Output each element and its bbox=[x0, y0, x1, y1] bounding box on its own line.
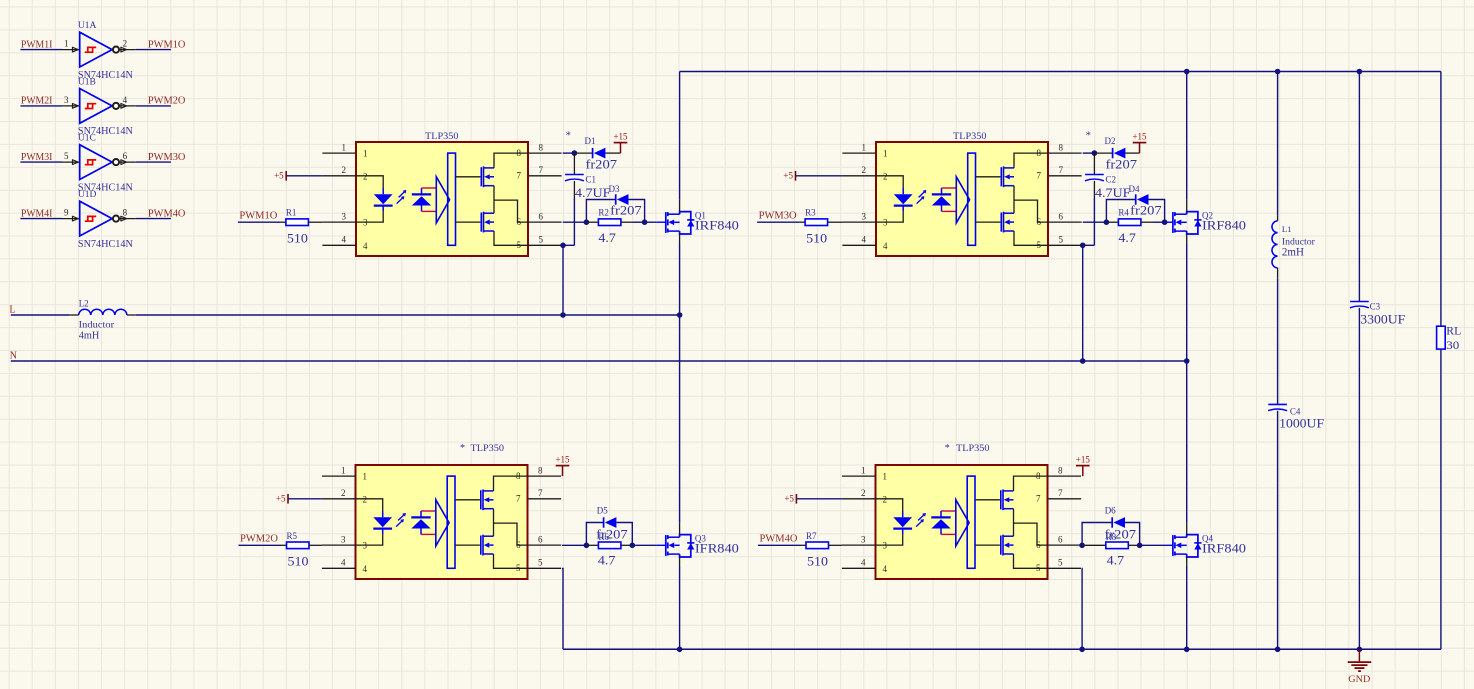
svg-text:*: * bbox=[460, 443, 465, 454]
inductor L1 2mH bbox=[1272, 216, 1278, 279]
wire PWM3O output bbox=[136, 161, 171, 163]
svg-text:U1D: U1D bbox=[78, 190, 97, 200]
wire R5 to pin 3 bbox=[309, 544, 322, 546]
svg-text:1: 1 bbox=[341, 465, 346, 475]
svg-text:8: 8 bbox=[123, 208, 128, 218]
svg-text:C2: C2 bbox=[1106, 174, 1117, 184]
optocoupler TLP350 #1 body bbox=[322, 142, 561, 256]
svg-text:1: 1 bbox=[342, 142, 347, 152]
wire pin5 to bottom bus (sec4) bbox=[1081, 568, 1083, 649]
svg-text:PWM3O: PWM3O bbox=[148, 152, 186, 163]
wire Q2 source / midpoint to N rail bbox=[1186, 244, 1188, 362]
svg-text:RL: RL bbox=[1446, 324, 1461, 338]
svg-text:D5: D5 bbox=[597, 506, 608, 516]
wire C3 to bottom bus bbox=[1358, 308, 1360, 649]
svg-text:1: 1 bbox=[862, 142, 867, 152]
svg-text:PWM2O: PWM2O bbox=[240, 534, 278, 545]
wire pin6 (sec4) bbox=[1081, 544, 1082, 546]
svg-text:L1: L1 bbox=[1282, 224, 1291, 234]
wire PWM2O output bbox=[136, 105, 171, 107]
svg-text:+15: +15 bbox=[1132, 132, 1147, 142]
svg-text:L: L bbox=[9, 304, 15, 315]
resistor R4 4.7 bbox=[1106, 221, 1118, 223]
svg-text:3: 3 bbox=[341, 534, 346, 544]
wire PWM4I input bbox=[20, 218, 62, 220]
svg-text:PWM1O: PWM1O bbox=[239, 211, 277, 222]
wire PWM1O to R1 bbox=[238, 221, 281, 223]
svg-text:IFR840: IFR840 bbox=[695, 541, 739, 556]
svg-text:6: 6 bbox=[538, 534, 543, 544]
optocoupler TLP350 #3 body bbox=[322, 465, 561, 579]
svg-text:4: 4 bbox=[363, 564, 368, 574]
svg-text:3: 3 bbox=[862, 211, 867, 221]
junction bbox=[560, 243, 566, 249]
svg-text:fr207: fr207 bbox=[1130, 202, 1162, 217]
optocoupler TLP350 #2 body bbox=[842, 142, 1081, 256]
junction bbox=[677, 647, 683, 653]
svg-text:7: 7 bbox=[1036, 494, 1041, 504]
junction on top bus bbox=[1357, 69, 1363, 75]
wire Q2 drain to top bus bbox=[1186, 72, 1188, 200]
inverter U1C SN74HC14N bbox=[62, 134, 136, 194]
svg-text:GND: GND bbox=[1348, 675, 1370, 685]
resistor R6 4.7 bbox=[586, 544, 598, 546]
svg-text:510: 510 bbox=[806, 231, 827, 246]
svg-text:1: 1 bbox=[861, 465, 866, 475]
wire R7 to pin 3 bbox=[829, 544, 842, 546]
svg-text:3300UF: 3300UF bbox=[1360, 311, 1405, 326]
junction bbox=[572, 150, 578, 156]
svg-text:2: 2 bbox=[862, 165, 867, 175]
capacitor C1 4.7UF bbox=[573, 153, 575, 174]
wire PWM4O output bbox=[136, 218, 171, 220]
svg-text:3: 3 bbox=[342, 211, 347, 221]
svg-text:IRF840: IRF840 bbox=[1202, 541, 1246, 556]
transistor Q1 IRF840 bbox=[665, 212, 667, 233]
svg-text:3: 3 bbox=[861, 534, 866, 544]
svg-text:PWM2O: PWM2O bbox=[148, 96, 186, 107]
svg-text:PWM4O: PWM4O bbox=[760, 534, 798, 545]
resistor R5 bbox=[287, 542, 310, 549]
wire to Q2 gate bbox=[1153, 221, 1165, 223]
svg-text:7: 7 bbox=[1037, 171, 1042, 181]
svg-text:4.7: 4.7 bbox=[598, 230, 616, 245]
svg-text:1: 1 bbox=[363, 472, 368, 482]
junction bbox=[1080, 243, 1086, 249]
wire PWM1I input bbox=[20, 49, 62, 51]
svg-text:PWM2I: PWM2I bbox=[21, 96, 53, 107]
power port +15 (sec3) bbox=[562, 466, 564, 477]
svg-text:C1: C1 bbox=[586, 174, 597, 184]
svg-text:7: 7 bbox=[538, 488, 543, 498]
top bus wire bbox=[680, 71, 1441, 73]
svg-text:4.7UF: 4.7UF bbox=[1095, 185, 1131, 200]
svg-text:+5: +5 bbox=[276, 494, 286, 504]
svg-text:510: 510 bbox=[807, 554, 828, 569]
svg-text:SN74HC14N: SN74HC14N bbox=[78, 239, 133, 250]
svg-text:TLP350: TLP350 bbox=[425, 132, 459, 142]
svg-text:8: 8 bbox=[538, 465, 543, 475]
power port +15 (sec4) bbox=[1082, 466, 1084, 477]
svg-text:510: 510 bbox=[288, 554, 309, 569]
junction bbox=[1079, 647, 1085, 653]
power port +5 (block 2) bbox=[795, 171, 797, 181]
svg-text:U1C: U1C bbox=[78, 134, 96, 144]
svg-text:D6: D6 bbox=[1105, 506, 1116, 516]
junction on L rail bbox=[560, 312, 566, 318]
svg-text:*: * bbox=[945, 443, 950, 454]
wire C3 branch top bbox=[1358, 72, 1360, 302]
svg-text:7: 7 bbox=[539, 165, 544, 175]
junction bbox=[1162, 219, 1168, 225]
svg-text:PWM4O: PWM4O bbox=[148, 208, 186, 219]
junction bbox=[1092, 150, 1098, 156]
wire Q4 source to bottom bus bbox=[1186, 567, 1188, 650]
svg-text:fr207: fr207 bbox=[1105, 527, 1137, 542]
svg-text:2mH: 2mH bbox=[1282, 245, 1304, 259]
wire pin6 (sec2) bbox=[1083, 221, 1107, 223]
wire C2/pin5 to N rail bbox=[1093, 198, 1095, 245]
junction bbox=[642, 219, 648, 225]
svg-text:U1A: U1A bbox=[78, 21, 97, 31]
svg-text:6: 6 bbox=[123, 151, 128, 161]
svg-text:fr207: fr207 bbox=[596, 527, 628, 542]
resistor R7 bbox=[806, 542, 829, 549]
L rail wire (right) bbox=[136, 314, 680, 316]
svg-text:4: 4 bbox=[861, 558, 866, 568]
svg-text:D3: D3 bbox=[609, 184, 620, 194]
svg-text:R5: R5 bbox=[287, 531, 298, 541]
junction on top bus bbox=[1275, 69, 1281, 75]
junction bbox=[1079, 543, 1085, 549]
diode D2 fr207 bbox=[1094, 152, 1112, 154]
svg-text:5: 5 bbox=[539, 235, 544, 245]
junction bbox=[1104, 219, 1110, 225]
svg-text:1: 1 bbox=[64, 39, 69, 49]
power port +15 (sec2) bbox=[1139, 143, 1141, 154]
svg-text:7: 7 bbox=[516, 494, 521, 504]
junction bbox=[1184, 647, 1190, 653]
svg-text:5: 5 bbox=[538, 558, 543, 568]
svg-text:TLP350: TLP350 bbox=[471, 444, 505, 454]
svg-text:7: 7 bbox=[517, 171, 522, 181]
junction bbox=[1357, 647, 1363, 653]
svg-text:fr207: fr207 bbox=[610, 202, 642, 217]
wire PWM1O output bbox=[136, 49, 171, 51]
junction (L rail end) bbox=[677, 312, 683, 318]
junction bbox=[1137, 543, 1143, 549]
power port +15 (sec1) bbox=[620, 143, 622, 154]
svg-text:4: 4 bbox=[363, 241, 368, 251]
svg-text:4: 4 bbox=[883, 241, 888, 251]
svg-text:8: 8 bbox=[1058, 465, 1063, 475]
junction bbox=[584, 543, 590, 549]
svg-text:+5: +5 bbox=[783, 171, 793, 181]
svg-text:7: 7 bbox=[1058, 488, 1063, 498]
ground GND bbox=[1348, 649, 1372, 671]
svg-text:6: 6 bbox=[1058, 534, 1063, 544]
svg-text:D2: D2 bbox=[1105, 136, 1116, 146]
inductor L2 4mH bbox=[70, 309, 136, 315]
wire R3 to pin 3 bbox=[828, 221, 843, 223]
svg-text:5: 5 bbox=[1059, 235, 1064, 245]
wire RL to bottom bus bbox=[1440, 349, 1442, 649]
inverter U1D SN74HC14N bbox=[62, 190, 136, 250]
wire PWM4O to R7 bbox=[758, 544, 801, 546]
svg-text:4: 4 bbox=[883, 564, 888, 574]
svg-text:1: 1 bbox=[883, 472, 888, 482]
wire midpoint to Q3 drain bbox=[679, 315, 681, 523]
wire midpoint to Q4 drain bbox=[1186, 361, 1188, 523]
svg-text:5: 5 bbox=[1058, 558, 1063, 568]
resistor R1 bbox=[286, 219, 309, 226]
wire +5 to pin 2 bbox=[796, 498, 842, 500]
junction on top bus bbox=[1184, 69, 1190, 75]
svg-text:TLP350: TLP350 bbox=[956, 444, 990, 454]
svg-text:4.7: 4.7 bbox=[1118, 230, 1136, 245]
svg-text:2: 2 bbox=[342, 165, 347, 175]
svg-text:R1: R1 bbox=[286, 208, 297, 218]
wire Q1 drain to top bus bbox=[679, 72, 681, 200]
svg-text:1: 1 bbox=[883, 149, 888, 159]
svg-text:PWM1I: PWM1I bbox=[21, 39, 53, 50]
svg-text:PWM3O: PWM3O bbox=[759, 211, 797, 222]
svg-text:IRF840: IRF840 bbox=[1202, 218, 1246, 233]
svg-text:fr207: fr207 bbox=[586, 156, 618, 171]
diode D5 fr207 parallel loop bbox=[586, 523, 603, 546]
resistor RL 30 bbox=[1437, 326, 1446, 349]
power port +5 (block 1) bbox=[285, 171, 287, 181]
resistor R3 bbox=[805, 219, 828, 226]
wire PWM2O to R5 bbox=[239, 544, 282, 546]
svg-text:2: 2 bbox=[861, 488, 866, 498]
svg-text:N: N bbox=[10, 351, 17, 362]
svg-text:*: * bbox=[1086, 129, 1092, 141]
transistor Q3 IFR840 bbox=[665, 535, 667, 556]
svg-text:4: 4 bbox=[123, 95, 128, 105]
resistor R8 4.7 bbox=[1082, 544, 1106, 546]
svg-text:2: 2 bbox=[341, 488, 346, 498]
wire Q3 source to bottom bus bbox=[679, 567, 681, 650]
svg-text:+15: +15 bbox=[613, 132, 628, 142]
diode D6 fr207 parallel loop bbox=[1082, 523, 1112, 546]
wire PWM2I input bbox=[20, 105, 62, 107]
wire C1/pin5 to L rail bbox=[573, 198, 575, 245]
svg-text:*: * bbox=[566, 129, 572, 141]
svg-text:6: 6 bbox=[1059, 211, 1064, 221]
svg-text:4.7: 4.7 bbox=[1107, 552, 1125, 567]
wire to Q1 gate bbox=[633, 221, 645, 223]
svg-text:1000UF: 1000UF bbox=[1279, 415, 1324, 430]
capacitor C4 1000UF bbox=[1268, 403, 1287, 405]
bottom bus wire bbox=[563, 648, 1441, 650]
wire +5 to pin 2 bbox=[796, 175, 843, 177]
svg-text:C3: C3 bbox=[1370, 301, 1381, 311]
junction on N rail bbox=[1080, 358, 1086, 364]
resistor R2 4.7 bbox=[586, 221, 598, 223]
svg-text:4: 4 bbox=[342, 235, 347, 245]
wire PWM3O to R3 bbox=[757, 221, 800, 223]
capacitor C2 4.7UF bbox=[1093, 153, 1095, 174]
svg-text:+15: +15 bbox=[555, 455, 570, 465]
wire L1 to C4 bbox=[1277, 278, 1279, 404]
wire pin8 node (sec2) bbox=[1083, 152, 1095, 154]
wire to Q4 gate bbox=[1140, 544, 1167, 546]
wire pin6 (sec1) bbox=[563, 221, 587, 223]
transistor Q4 IRF840 bbox=[1172, 535, 1174, 556]
svg-text:30: 30 bbox=[1446, 338, 1459, 352]
junction bbox=[1275, 647, 1281, 653]
svg-text:510: 510 bbox=[287, 231, 308, 246]
svg-text:8: 8 bbox=[1059, 142, 1064, 152]
svg-text:8: 8 bbox=[539, 142, 544, 152]
diode D4 fr207 parallel loop bbox=[1106, 200, 1135, 223]
wire pin6 (sec3) bbox=[562, 544, 587, 546]
L rail wire (left) bbox=[11, 314, 70, 316]
svg-text:+5: +5 bbox=[784, 494, 794, 504]
svg-text:fr207: fr207 bbox=[1106, 156, 1138, 171]
svg-text:4.7: 4.7 bbox=[598, 552, 616, 567]
svg-text:D4: D4 bbox=[1129, 184, 1140, 194]
svg-text:5: 5 bbox=[64, 151, 69, 161]
wire +5 to pin 2 bbox=[286, 175, 322, 177]
wire pin5 to bottom bus (sec3) bbox=[562, 568, 563, 649]
svg-text:2: 2 bbox=[123, 39, 128, 49]
diode D3 fr207 parallel loop bbox=[586, 200, 615, 223]
svg-text:+5: +5 bbox=[274, 171, 284, 181]
svg-text:4mH: 4mH bbox=[79, 329, 100, 341]
svg-text:D1: D1 bbox=[585, 136, 596, 146]
wire +5 to pin 2 bbox=[288, 498, 322, 500]
wire R1 to pin 3 bbox=[308, 221, 322, 223]
capacitor C3 3300UF bbox=[1350, 301, 1369, 303]
svg-text:1: 1 bbox=[363, 149, 368, 159]
svg-text:L2: L2 bbox=[79, 299, 89, 309]
wire RL branch top bbox=[1440, 72, 1442, 327]
wire to Q3 gate bbox=[632, 544, 656, 546]
wire L1 branch top bbox=[1277, 72, 1279, 216]
svg-text:R3: R3 bbox=[805, 208, 816, 218]
wire Q1 source / midpoint to L rail bbox=[679, 244, 681, 316]
inverter U1B SN74HC14N bbox=[62, 77, 136, 137]
junction bbox=[630, 543, 636, 549]
svg-text:9: 9 bbox=[64, 208, 69, 218]
wire C4 to bottom bus bbox=[1277, 411, 1279, 650]
svg-text:4.7UF: 4.7UF bbox=[575, 185, 611, 200]
diode D1 fr207 bbox=[574, 152, 592, 154]
svg-text:IRF840: IRF840 bbox=[695, 218, 739, 233]
power port +5 (block 4) bbox=[795, 494, 797, 504]
transistor Q2 IRF840 bbox=[1172, 212, 1174, 233]
svg-text:U1B: U1B bbox=[78, 77, 96, 87]
svg-text:4: 4 bbox=[341, 558, 346, 568]
optocoupler TLP350 #4 body bbox=[842, 465, 1081, 579]
svg-text:3: 3 bbox=[64, 95, 69, 105]
wire PWM3I input bbox=[20, 161, 62, 163]
power port +5 (block 3) bbox=[287, 494, 289, 504]
svg-text:TLP350: TLP350 bbox=[953, 132, 987, 142]
svg-text:+15: +15 bbox=[1076, 455, 1091, 465]
junction bbox=[584, 219, 590, 225]
N rail wire bbox=[11, 360, 1187, 362]
svg-text:R4: R4 bbox=[1118, 208, 1129, 218]
svg-text:7: 7 bbox=[1059, 165, 1064, 175]
svg-text:4: 4 bbox=[862, 235, 867, 245]
wire pin8 node (sec1) bbox=[563, 152, 575, 154]
svg-text:R7: R7 bbox=[806, 531, 817, 541]
svg-text:PWM3I: PWM3I bbox=[21, 152, 53, 163]
svg-text:6: 6 bbox=[539, 211, 544, 221]
svg-text:PWM1O: PWM1O bbox=[148, 39, 186, 50]
inverter U1A SN74HC14N bbox=[62, 21, 136, 81]
junction (N rail end) bbox=[1184, 358, 1190, 364]
svg-text:R2: R2 bbox=[598, 208, 609, 218]
svg-text:PWM4I: PWM4I bbox=[21, 208, 53, 219]
